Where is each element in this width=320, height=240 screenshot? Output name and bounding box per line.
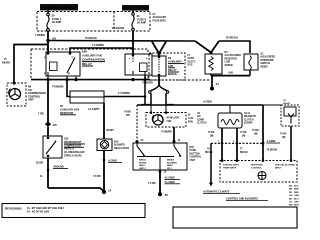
svg-text:BK/RD: BK/RD [2,62,10,65]
svg-text:REVISIONS:: REVISIONS: [5,207,22,211]
resistor R1 (box) [70,91,104,103]
svg-text:76 BK/GN: 76 BK/GN [267,150,278,152]
svg-text:A-CM92: A-CM92 [267,140,277,143]
svg-text:AFTER: AFTER [139,161,147,164]
svg-text:75 PK: 75 PK [280,134,287,136]
svg-text:2.5 RD/GN: 2.5 RD/GN [112,27,124,30]
label central electric [188,54,197,67]
svg-text:BRN: BRN [294,189,299,191]
svg-text:UNIT: UNIT [28,99,34,102]
label switch inside [139,159,177,170]
fuse F8 (30 amp) [132,11,147,31]
svg-text:BLK: BLK [294,186,299,188]
climate control unit (dashed box) [220,160,297,182]
svg-text:7.5 BR: 7.5 BR [93,175,101,178]
wire long link down (x=263) [252,105,280,161]
svg-text:AUXILIARY: AUXILIARY [168,60,182,64]
label climate box inside [223,164,295,170]
svg-text:30 BR: 30 BR [36,162,43,165]
relay K9 aux continuation (box) [46,52,80,76]
svg-text:GY: GY [289,202,293,204]
svg-text:CONTINUATION: CONTINUATION [82,58,105,62]
svg-text:75 BK: 75 BK [240,132,247,134]
label auxiliary fuse box [153,12,167,22]
svg-text:74 BN/RD: 74 BN/RD [161,131,172,134]
svg-text:RD: RD [126,114,130,117]
svg-text:A/C: A/C [197,115,201,118]
svg-text:WHT: WHT [294,205,300,207]
svg-text:WH: WH [289,205,293,207]
svg-text:INSTALL.FUSES: INSTALL.FUSES [123,6,148,10]
label N6 [28,86,46,102]
svg-text:AUTOMATIC CLIMATE: AUTOMATIC CLIMATE [203,191,230,194]
svg-text:BR/DA: BR/DA [139,159,146,162]
wire S32 down to ground [36,158,104,192]
svg-text:CLUTCH: CLUTCH [244,119,254,121]
K9 auxiliary fan relay (dashed box) [149,53,185,80]
svg-text:MOTOR/FUSES/RELAY: MOTOR/FUSES/RELAY [41,6,79,10]
svg-text:BN: BN [289,189,293,191]
auxiliary fan motor M (dashed box) [146,112,186,127]
legend wire colors [289,186,300,207]
svg-text:BLOWER: BLOWER [167,162,177,164]
svg-text:FUSE BOX: FUSE BOX [153,18,167,22]
svg-text:GN: GN [289,195,293,197]
wire fan box to A/C switch [161,127,174,141]
label automatic climate control [203,191,268,201]
wire fuse F1 down [35,31,48,54]
fuse box F1 (dashed) [37,12,150,32]
wire clutch outputs [208,128,247,161]
A/C compressor clutch A9 (box) [218,105,242,128]
svg-text:X26: X26 [53,124,58,127]
A/C compressor control unit N6 (dashed box) [7,82,26,106]
wire K9 relay output [142,76,160,85]
svg-text:FAN: FAN [188,120,193,123]
svg-text:02 - AS OF MY 1992: 02 - AS OF MY 1992 [27,211,50,214]
blower icon [258,172,266,180]
svg-text:HEAT: HEAT [139,164,145,167]
svg-text:GROUND: GROUND [53,166,64,169]
compressor icon [9,88,21,99]
svg-text:A 80: A 80 [228,72,234,75]
wire Y split to fan [141,85,174,113]
svg-text:K9/1: K9/1 [82,50,88,54]
svg-text:30 AMP: 30 AMP [52,20,62,24]
svg-text:7 RD: 7 RD [38,113,44,116]
node A8 [46,36,56,42]
svg-text:CLUTCH: CLUTCH [197,123,207,125]
header bar MOTOR/FUSES [40,4,78,10]
svg-text:SPECIAL BLOWER: SPECIAL BLOWER [275,164,295,167]
svg-text:TEMP INPUT: TEMP INPUT [223,168,237,170]
svg-text:30: 30 [165,193,169,197]
svg-text:RELAY: RELAY [168,68,177,72]
svg-text:CONTROL AND BLOWERS: CONTROL AND BLOWERS [226,198,258,201]
svg-text:COMP.: COMP. [197,119,205,121]
svg-text:7 RD/BK: 7 RD/BK [35,34,45,37]
svg-text:(M): (M) [254,133,258,135]
svg-text:(M): (M) [210,135,214,137]
svg-text:CONTROL: CONTROL [251,168,262,170]
svg-text:RELAY: RELAY [82,62,92,66]
terminal block box (bottom right) [173,207,297,228]
label R5 [225,51,242,67]
svg-text:HEAT: HEAT [167,164,173,167]
svg-text:MODE: MODE [261,65,269,68]
svg-text:GRY: GRY [294,202,299,204]
svg-text:FAN: FAN [168,64,173,68]
svg-text:STROKE DISPL.: STROKE DISPL. [223,165,240,167]
svg-text:VALVE: VALVE [283,102,291,105]
label R16 [114,141,129,150]
svg-text:UNIT: UNIT [190,159,196,162]
relay module box (dashed) [31,49,148,80]
wire 2.5 RD/BK from resistor R1 [104,75,146,105]
svg-text:A-CM92: A-CM92 [108,160,118,163]
V junction to resistor [195,41,219,55]
wire valve down [280,126,291,161]
solenoid valve Y (dashed box) [263,100,299,126]
label S32 [64,138,85,158]
svg-text:BU: BU [289,198,293,200]
svg-text:HP 2: HP 2 [167,168,173,170]
svg-text:INPUT: INPUT [275,168,282,170]
svg-text:GRN: GRN [294,195,299,197]
svg-text:74 BN/RD: 74 BN/RD [52,86,64,89]
label A9 clutch [197,112,257,125]
relay K9/2 (box) [125,54,152,75]
svg-text:HMP C: HMP C [139,168,146,170]
wire fuse1 branch down (74 BN/RD) [38,80,48,122]
label fan [167,114,194,124]
svg-text:BLU: BLU [294,198,299,200]
svg-text:MAGNETIC: MAGNETIC [244,115,257,118]
ground at 14 (right) [210,76,219,91]
svg-text:14: 14 [108,189,112,193]
svg-text:A1-CM92: A1-CM92 [165,181,176,184]
svg-text:75 BK: 75 BK [208,132,215,134]
svg-text:RESISTOR: RESISTOR [60,111,73,115]
wire R16 to ground 14 [93,151,122,192]
diode unit R16 (box) [97,139,112,151]
svg-text:BK/RT: BK/RT [107,129,115,132]
svg-text:1.5 RD/BK: 1.5 RD/BK [92,44,104,47]
label K9 fan relay [168,57,184,76]
svg-text:SPEED: SPEED [225,64,233,67]
wire long link (y=105) [137,101,263,105]
svg-text:PARTITION: PARTITION [251,164,263,167]
svg-text:14: 14 [216,82,220,86]
wire relay1 output to resistor R1 [52,80,70,97]
A/C compressor cut-in switch (box) [133,139,187,171]
svg-text:(M): (M) [242,135,246,137]
wire relay feed (terminal 30) [70,48,133,53]
wire switch output to node 30 [148,170,180,193]
pin labels relay terminals [44,57,157,75]
svg-text:A1-CM92: A1-CM92 [165,177,176,180]
wire dashed down to A/C switch [124,105,137,140]
svg-text:(COMP): (COMP) [244,123,253,125]
wire bottom bus dashed extension [150,79,210,81]
svg-text:BK: BK [289,186,293,188]
wire arrow to climate control [209,143,213,186]
wire dashed interconnect [205,141,263,154]
svg-text:30 AMP: 30 AMP [137,21,147,25]
label high pressure switch [261,53,276,69]
svg-text:RD: RD [289,192,293,194]
svg-text:RED: RED [294,192,299,194]
pressure switch S32 (box) [43,136,62,158]
svg-text:7.5 BR: 7.5 BR [148,182,156,185]
node 30 [158,192,168,197]
fuse F1 (30 amp) [47,10,62,31]
wire to pressure switch [219,37,250,53]
svg-text:25 RD/GN: 25 RD/GN [226,37,238,40]
svg-text:MODUL: MODUL [168,73,178,76]
revisions box [2,204,145,218]
wire resistor/switch bottoms [211,70,250,76]
svg-text:FAN: FAN [167,120,172,123]
svg-text:BK/BA: BK/BA [167,159,174,162]
svg-text:75 RD/GN: 75 RD/GN [85,37,97,40]
fan motor icon [152,115,163,125]
relay K9 (box) [152,56,166,76]
pressure switch S (box) [244,54,258,70]
svg-text:(M): (M) [282,137,286,139]
svg-text:75 RD: 75 RD [252,130,259,132]
wire fuse F8 down to relay coil [132,31,134,56]
connector X (bowtie) [45,122,58,137]
header bar INSTALLED FUSES [122,5,149,11]
wire bottom bus [31,76,150,81]
svg-text:BK/GN: BK/GN [240,152,248,154]
svg-text:OPEN 2.0 BAR): OPEN 2.0 BAR) [64,155,82,158]
svg-text:01 - MY 1990 AND MY 1991 ONLY: 01 - MY 1990 AND MY 1991 ONLY [27,207,65,210]
ground node 14 [102,189,112,195]
svg-text:A9 k1: A9 k1 [244,112,251,115]
svg-text:2.5 RD/BK: 2.5 RD/BK [118,92,130,95]
svg-text:SYS.: SYS. [188,64,194,67]
wire bus 1.5 RD/BK (top horizontal) [48,27,195,47]
wire branch to N6 control unit [2,45,48,84]
resistor R5 (box) [205,54,222,74]
svg-text:A-CM92: A-CM92 [203,101,213,104]
V junction to K9 fan relay [152,42,166,56]
svg-text:75 BK/RD: 75 BK/RD [142,82,153,85]
label K9 relay [82,50,105,67]
svg-text:REGULATOR: REGULATOR [114,147,129,150]
wire R1 bottom tap down [104,103,114,139]
svg-text:2.5 GN/RT: 2.5 GN/RT [88,108,100,111]
label R1 [60,105,100,115]
label N22 pushbutton [190,146,202,162]
